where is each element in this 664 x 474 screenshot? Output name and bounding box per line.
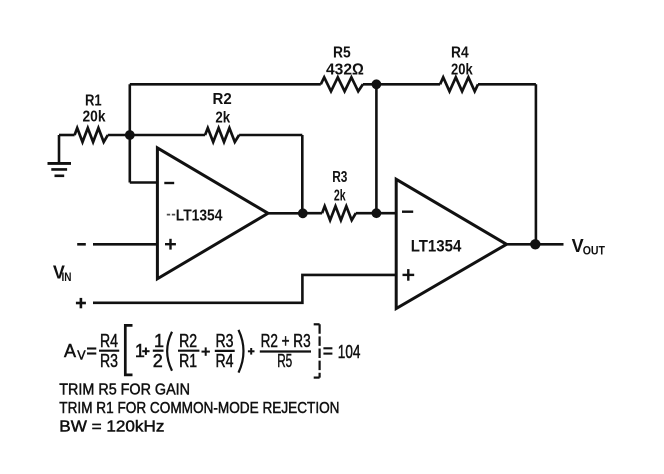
svg-text:1: 1 (154, 331, 164, 351)
svg-text:432Ω: 432Ω (326, 61, 364, 78)
svg-text:R4: R4 (100, 331, 118, 351)
svg-text:R3: R3 (332, 169, 347, 186)
svg-text:2k: 2k (215, 110, 230, 127)
svg-text:TRIM R1 FOR COMMON-MODE REJECT: TRIM R1 FOR COMMON-MODE REJECTION (59, 400, 339, 417)
svg-text:R5: R5 (277, 351, 292, 371)
svg-text:20k: 20k (83, 109, 106, 126)
svg-text:20k: 20k (451, 61, 473, 78)
svg-text:R5: R5 (333, 45, 351, 62)
svg-text:R1: R1 (179, 351, 197, 371)
svg-text:R2: R2 (179, 331, 197, 351)
svg-text:LT1354: LT1354 (411, 237, 462, 256)
svg-text:R3: R3 (100, 351, 118, 371)
svg-text:V: V (77, 348, 86, 362)
svg-text:104: 104 (338, 342, 361, 362)
svg-text:BW = 120kHz: BW = 120kHz (59, 419, 164, 436)
svg-text:LT1354: LT1354 (176, 207, 223, 224)
svg-text:A: A (64, 341, 76, 361)
svg-text:R4: R4 (451, 45, 469, 62)
svg-text:R3: R3 (216, 331, 234, 351)
svg-text:R1: R1 (85, 93, 102, 110)
svg-text:R2 + R3: R2 + R3 (261, 331, 311, 351)
svg-text:IN: IN (62, 272, 72, 284)
svg-text:R4: R4 (216, 351, 234, 371)
svg-text:2: 2 (153, 351, 163, 371)
svg-text:TRIM R5 FOR GAIN: TRIM R5 FOR GAIN (59, 381, 190, 398)
svg-text:R2: R2 (213, 91, 232, 108)
svg-text:2k: 2k (334, 188, 346, 205)
svg-text:OUT: OUT (583, 246, 605, 258)
